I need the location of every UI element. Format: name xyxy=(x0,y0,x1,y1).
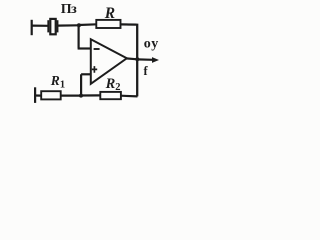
op-amp minus sign xyxy=(94,48,100,50)
piezo crystal Пз left plate xyxy=(47,20,49,32)
input terminal T-bar bottom left xyxy=(34,87,36,103)
resistor R1 body xyxy=(41,91,61,99)
wire node C to resistor R2 xyxy=(81,94,101,96)
node C junction dot xyxy=(79,94,83,98)
output arrowhead xyxy=(152,57,159,63)
wire resistor R to top right corner xyxy=(121,23,137,25)
piezo crystal Пз right plate xyxy=(57,20,59,32)
wire right vertical bus xyxy=(136,24,138,97)
wire to op-amp minus input xyxy=(78,47,91,49)
wire to op-amp plus input xyxy=(81,73,91,75)
resistor R body xyxy=(96,20,120,28)
wire R2 to bottom right corner xyxy=(121,95,138,98)
node B output junction dot xyxy=(135,57,139,61)
wire op-amp output to node B xyxy=(126,57,137,60)
resistor R2 body xyxy=(100,92,121,99)
wire terminal to resistor R1 xyxy=(35,94,41,96)
op-amp U1 triangle xyxy=(91,39,127,84)
wire terminal to crystal xyxy=(32,25,48,27)
input terminal T-bar top left xyxy=(31,20,33,35)
wire node A to resistor R xyxy=(79,23,97,26)
output arrow shaft xyxy=(137,58,152,61)
op-amp plus sign xyxy=(92,66,97,73)
wire R1 to node C xyxy=(61,94,80,96)
svg-text:оу: оу xyxy=(144,36,159,51)
svg-text:Пз: Пз xyxy=(61,2,77,17)
node A junction dot xyxy=(77,23,81,27)
wire crystal to node A xyxy=(58,24,78,27)
svg-text:R: R xyxy=(104,5,115,22)
piezo crystal Пз body xyxy=(50,19,55,34)
wire node A down to inverting input xyxy=(77,25,79,48)
wire node C up to non-inverting input xyxy=(80,74,82,95)
